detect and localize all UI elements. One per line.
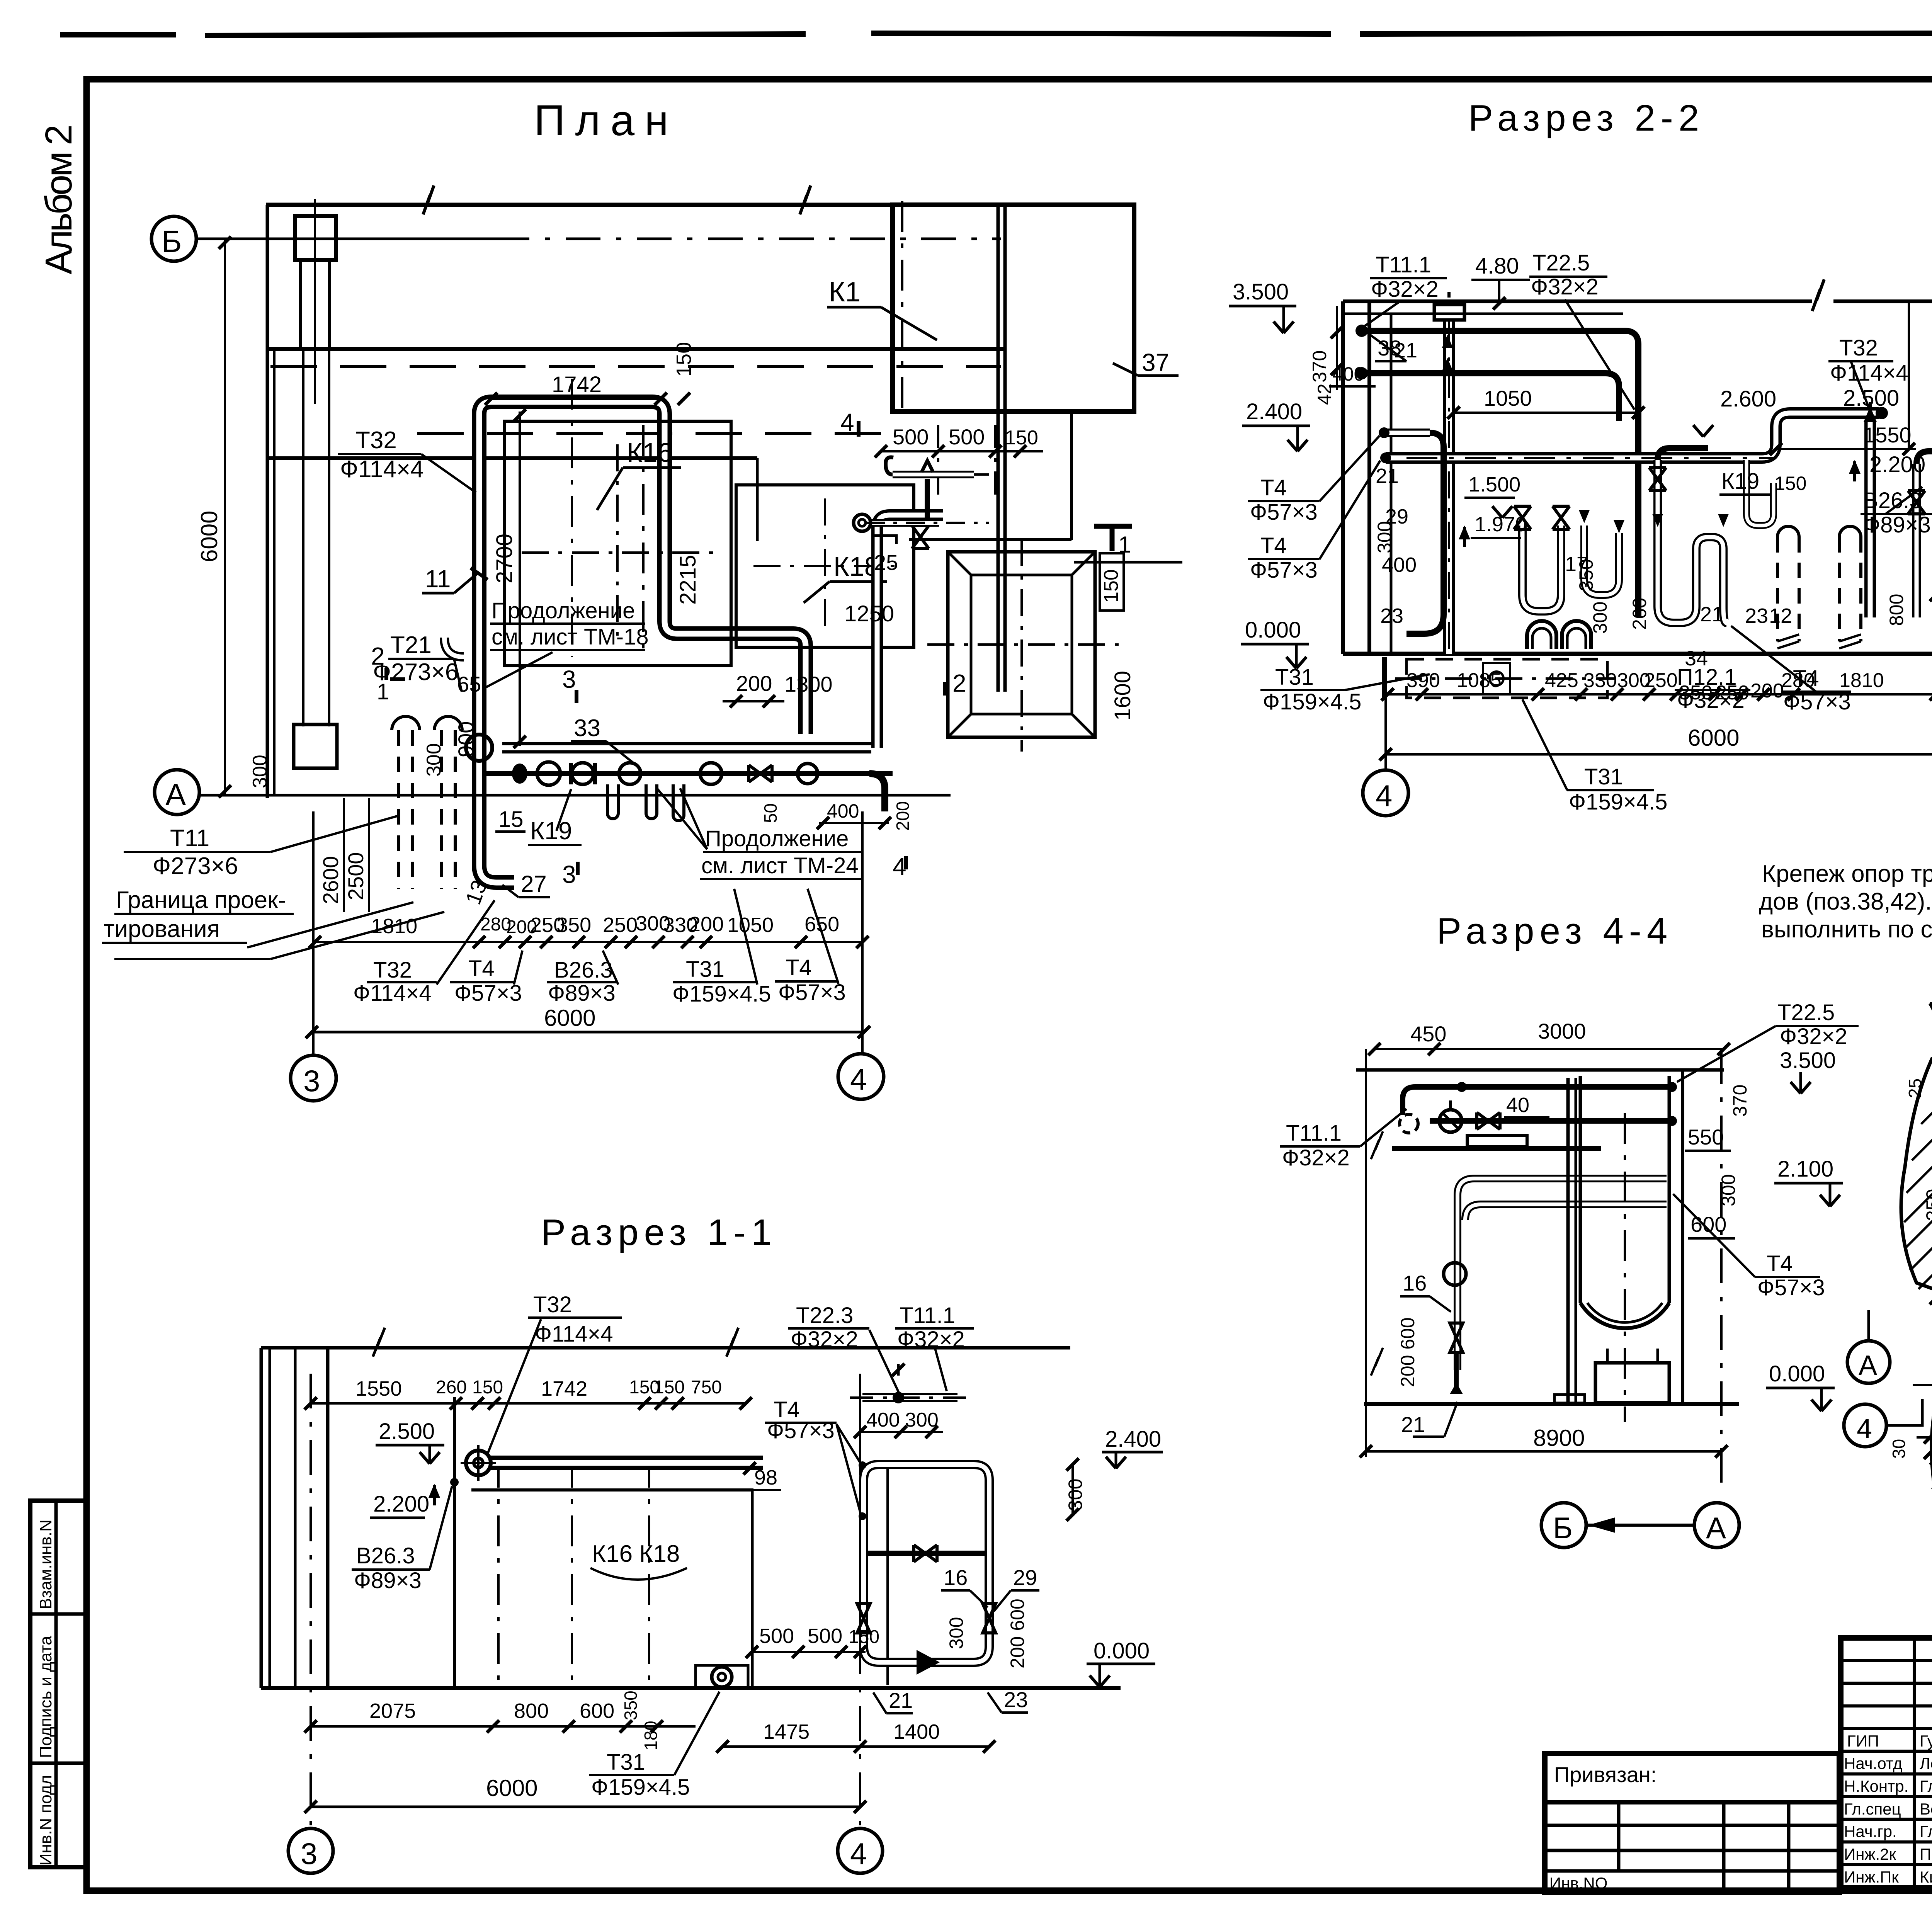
svg-text:Граница проек-: Граница проек-: [116, 887, 286, 913]
svg-text:23: 23: [1745, 604, 1768, 628]
svg-text:370: 370: [1309, 350, 1330, 383]
svg-text:21: 21: [1394, 339, 1417, 362]
left 6000 dim: [196, 236, 231, 798]
svg-text:2.100: 2.100: [1777, 1156, 1833, 1182]
dim 1300: [784, 672, 833, 696]
svg-text:Разрез 2-2: Разрез 2-2: [1468, 97, 1704, 139]
dim 1600 rotated / 150 boxed: [1100, 553, 1135, 721]
svg-text:250: 250: [1922, 1189, 1932, 1221]
pipe T32 serpentine: [479, 402, 806, 883]
top pipe B: [1363, 373, 1619, 421]
top beam: [1356, 1068, 1724, 1072]
label T21 f273x6: [373, 632, 462, 692]
T1 section mark right: [1094, 526, 1132, 558]
dim 500 500 150: [875, 425, 1043, 498]
svg-text:Т21: Т21: [390, 632, 432, 658]
svg-text:Ф114×4: Ф114×4: [535, 1321, 613, 1347]
svg-text:План: План: [534, 96, 679, 145]
svg-text:Волкова: Волкова: [1920, 1800, 1932, 1818]
floor: [261, 1686, 1121, 1690]
labels T11.1 T22.5 4.80: [1364, 250, 1634, 410]
svg-text:150: 150: [1774, 473, 1806, 494]
svg-text:800: 800: [1886, 594, 1907, 626]
bottom loop seals: [1527, 621, 1591, 649]
svg-text:250: 250: [603, 913, 638, 937]
svg-text:Ф159×4.5: Ф159×4.5: [591, 1775, 690, 1800]
svg-text:23: 23: [1380, 604, 1403, 628]
bottom labels P12.1 T4 T31: [1260, 626, 1851, 714]
svg-text:11: 11: [425, 565, 451, 593]
label 11: [422, 565, 488, 593]
svg-text:1742: 1742: [552, 372, 602, 397]
svg-text:Т22.3: Т22.3: [796, 1303, 853, 1328]
svg-text:1400: 1400: [893, 1720, 940, 1743]
svg-text:Ф159×4.5: Ф159×4.5: [1263, 689, 1361, 714]
svg-text:Т4: Т4: [1767, 1251, 1793, 1276]
svg-text:16: 16: [1403, 1271, 1427, 1295]
section mark 3 pair: [562, 665, 578, 888]
dim 1250: [806, 601, 947, 629]
dim 200 / 65 / 900 / 300: [423, 671, 784, 777]
pipe pair with left drop: [1444, 1179, 1667, 1394]
svg-text:К1: К1: [829, 277, 861, 308]
svg-text:Крепеж опор трубопрово-: Крепеж опор трубопрово-: [1762, 861, 1932, 887]
axis circles 4 and 3: [1363, 770, 1932, 816]
label K18: [804, 551, 887, 603]
svg-text:1050: 1050: [727, 913, 774, 937]
svg-text:Гладикова: Гладикова: [1920, 1822, 1932, 1840]
svg-text:Ф114×4: Ф114×4: [353, 981, 432, 1006]
svg-text:2.500: 2.500: [1843, 386, 1899, 411]
hatched column: [1901, 1045, 1932, 1300]
svg-text:Альбом 2: Альбом 2: [37, 124, 80, 274]
svg-text:350: 350: [1575, 559, 1597, 591]
svg-text:500: 500: [949, 425, 985, 449]
svg-text:К16: К16: [627, 437, 673, 468]
svg-text:1475: 1475: [763, 1720, 810, 1743]
top pipe A (T22.5): [1363, 331, 1638, 617]
svg-text:Т32: Т32: [533, 1292, 572, 1317]
svg-text:В26.3: В26.3: [356, 1543, 415, 1568]
plan dimensions top 1742: [485, 342, 696, 405]
right labels 2.400 300 0.000: [1065, 1427, 1163, 1687]
dim 450 3000: [1374, 1019, 1730, 1055]
svg-text:550: 550: [1688, 1125, 1724, 1149]
svg-text:450: 450: [1410, 1022, 1446, 1046]
svg-text:Ф32×2: Ф32×2: [897, 1327, 965, 1352]
labels right side T32 2.500 1550 2.200 B26.3: [1770, 335, 1932, 537]
pipe center dashline inside serpentine: [571, 379, 573, 657]
svg-text:425: 425: [1545, 669, 1578, 692]
svg-text:Ф57×3: Ф57×3: [1250, 500, 1318, 525]
svg-text:6000: 6000: [196, 511, 222, 562]
svg-text:дов (поз.38,42). Кронштейн: дов (поз.38,42). Кронштейн: [1759, 888, 1932, 915]
right pipe loop: [857, 1464, 996, 1675]
svg-text:150: 150: [654, 1377, 685, 1398]
svg-text:8900: 8900: [1533, 1425, 1585, 1451]
svg-text:Подпись и дата: Подпись и дата: [36, 1636, 55, 1758]
svg-text:Т31: Т31: [1275, 665, 1314, 690]
svg-text:1.500: 1.500: [1468, 473, 1520, 496]
svg-text:29: 29: [1013, 1565, 1037, 1590]
floor: [1364, 1402, 1739, 1406]
B26.3 label: [352, 1486, 452, 1593]
left wall: [261, 1348, 328, 1688]
chimney column plan: [295, 199, 336, 404]
svg-text:Ф273×6: Ф273×6: [373, 659, 458, 685]
svg-text:Т4: Т4: [1260, 533, 1287, 558]
svg-text:Т31: Т31: [686, 957, 724, 982]
building top wall: [266, 185, 1134, 214]
pivyazan table: [1545, 1753, 1839, 1893]
misc small numbers left: [1374, 339, 1417, 628]
wall segment right of hopper: [757, 412, 1182, 562]
svg-text:400: 400: [1332, 363, 1364, 385]
svg-text:2.400: 2.400: [1246, 399, 1302, 424]
svg-text:150: 150: [1100, 569, 1122, 603]
prodolzhenie TM-18: [485, 598, 649, 688]
continuation pipes cluster top right: [854, 457, 993, 575]
axis circle B: [151, 216, 196, 261]
top-left small dims 370 42 400: [1309, 306, 1376, 405]
svg-text:Ф159×4.5: Ф159×4.5: [1569, 789, 1667, 815]
bottom dim chain: [1381, 669, 1932, 704]
svg-text:260: 260: [1629, 598, 1650, 630]
svg-text:200: 200: [893, 801, 913, 831]
svg-text:350: 350: [621, 1690, 641, 1720]
svg-text:Н.Контр.: Н.Контр.: [1844, 1777, 1908, 1795]
svg-text:300: 300: [1718, 1174, 1739, 1206]
svg-text:Ф32×2: Ф32×2: [1282, 1145, 1350, 1170]
ceiling lines: [1343, 279, 1932, 314]
bottom dim chain: [304, 1690, 995, 1753]
svg-text:1085: 1085: [1457, 669, 1502, 692]
svg-text:Т32: Т32: [1839, 335, 1878, 361]
svg-text:1810: 1810: [1839, 669, 1884, 692]
svg-text:Ф32×2: Ф32×2: [1780, 1024, 1847, 1049]
axis A line: [199, 794, 951, 797]
label 15: [495, 807, 526, 832]
svg-text:4: 4: [1376, 779, 1392, 813]
svg-text:150: 150: [1005, 427, 1038, 449]
svg-text:Продолжение: Продолжение: [705, 826, 849, 851]
21 23 labels bottom: [873, 1687, 1028, 1713]
svg-text:21: 21: [889, 1688, 913, 1713]
axis circles B A with arrow: [1541, 1499, 1739, 1548]
svg-text:Гладикова: Гладикова: [1920, 1777, 1932, 1795]
svg-text:350: 350: [1679, 682, 1713, 704]
svg-text:Ф273×6: Ф273×6: [153, 853, 238, 879]
svg-text:150: 150: [849, 1627, 879, 1647]
svg-text:тирования: тирования: [104, 916, 220, 942]
U loop group 1: [1514, 506, 1624, 611]
left columns: [1343, 301, 1391, 654]
svg-text:Т4: Т4: [468, 956, 495, 981]
svg-text:2: 2: [952, 669, 966, 697]
svg-text:Т11.1: Т11.1: [900, 1303, 955, 1328]
svg-text:65: 65: [457, 672, 481, 696]
top broken scan line: [60, 32, 1932, 36]
plan axis circles 3 and 4: [291, 811, 884, 1101]
svg-text:25: 25: [1905, 1078, 1925, 1098]
6000: [304, 1775, 866, 1813]
svg-text:0.000: 0.000: [1245, 617, 1301, 643]
svg-text:Ф32×2: Ф32×2: [1531, 274, 1599, 299]
tall riser pipe: [1434, 292, 1464, 654]
right vertical dims: [1909, 303, 1932, 696]
svg-text:3: 3: [303, 1064, 320, 1098]
svg-text:390: 390: [1406, 669, 1440, 692]
svg-text:Т31: Т31: [1584, 764, 1623, 789]
svg-text:1050: 1050: [1484, 386, 1532, 410]
left dim vertical: [1366, 1043, 1383, 1457]
svg-text:4: 4: [1857, 1413, 1872, 1444]
svg-text:2.600: 2.600: [1720, 386, 1776, 412]
svg-text:Инж.Пк: Инж.Пк: [1844, 1868, 1899, 1886]
boiler: [1554, 1076, 1669, 1422]
svg-text:выполнить по сер.3.900-9 в.2: выполнить по сер.3.900-9 в.2: [1761, 916, 1932, 943]
svg-text:750: 750: [691, 1377, 722, 1398]
8900: [1360, 1425, 1728, 1458]
svg-text:Т4: Т4: [786, 955, 812, 980]
svg-text:К16 К18: К16 К18: [592, 1541, 680, 1567]
K16 boiler rect: [504, 421, 731, 666]
top horizontal line above (dim line): [1337, 306, 1932, 306]
svg-text:Ф57×3: Ф57×3: [778, 980, 846, 1005]
svg-text:250: 250: [1644, 669, 1678, 692]
U loop group 2: [1649, 448, 1729, 623]
dim line 1250: [806, 629, 951, 629]
svg-text:Т32: Т32: [355, 427, 397, 454]
right labels: [1673, 1000, 1859, 1411]
svg-text:Разрез 4-4: Разрез 4-4: [1437, 910, 1673, 952]
granica proektirovaniya: [102, 887, 444, 959]
labels K19 150: [1719, 469, 1806, 495]
svg-text:Ф89×3: Ф89×3: [354, 1568, 422, 1593]
boiler block: [454, 1397, 888, 1688]
svg-text:33: 33: [574, 715, 600, 742]
svg-text:см. лист ТМ-18: см. лист ТМ-18: [492, 624, 649, 650]
B26.3 riser with valve: [1908, 451, 1932, 617]
svg-text:4: 4: [850, 1062, 867, 1096]
svg-text:21: 21: [1376, 464, 1399, 488]
axis circles 3 4: [288, 1828, 883, 1873]
svg-text:см. лист ТМ-24: см. лист ТМ-24: [701, 853, 859, 878]
svg-text:Гл.спец: Гл.спец: [1844, 1800, 1901, 1818]
svg-text:Т22.5: Т22.5: [1532, 250, 1590, 276]
svg-text:180: 180: [641, 1721, 661, 1750]
svg-text:37: 37: [1142, 349, 1169, 376]
axes dash-dot verticals: [310, 1374, 312, 1830]
svg-text:200: 200: [1750, 680, 1784, 702]
svg-text:Ф159×4.5: Ф159×4.5: [672, 981, 771, 1007]
svg-text:Поздеева: Поздеева: [1920, 1845, 1932, 1863]
svg-text:1600: 1600: [1110, 671, 1135, 721]
svg-text:6000: 6000: [1688, 725, 1739, 751]
hatched wedge: [1930, 1354, 1932, 1498]
svg-text:3000: 3000: [1538, 1019, 1586, 1043]
svg-text:800: 800: [514, 1699, 549, 1723]
svg-text:Т32: Т32: [373, 957, 412, 983]
svg-text:Т22.5: Т22.5: [1777, 1000, 1835, 1025]
rotated 300 200 600: [946, 1599, 1028, 1668]
svg-text:150: 150: [672, 342, 696, 377]
right hopper: [927, 539, 1119, 752]
dashed future risers: [1777, 537, 1861, 641]
underfloor channel T31: [1383, 657, 1615, 699]
vertical pipe right with elbow to continuation: [877, 515, 943, 748]
section mark 2 left: [371, 642, 405, 704]
svg-text:400: 400: [1382, 553, 1417, 577]
svg-text:4: 4: [840, 408, 854, 436]
svg-text:Т11.1: Т11.1: [1286, 1121, 1342, 1146]
svg-text:Т4: Т4: [1260, 475, 1287, 500]
svg-text:4: 4: [850, 1837, 867, 1871]
svg-text:900: 900: [454, 721, 478, 757]
svg-text:400: 400: [866, 1409, 900, 1431]
left labels: [1280, 1109, 1406, 1170]
svg-text:Б: Б: [1553, 1511, 1573, 1545]
axis B line: [195, 238, 495, 240]
svg-text:260: 260: [436, 1377, 467, 1398]
svg-text:330: 330: [1583, 669, 1617, 692]
svg-text:27: 27: [521, 871, 547, 897]
flange dots on left of top pipes: [1355, 325, 1368, 337]
98 label: [743, 1462, 781, 1490]
svg-text:Ф32×2: Ф32×2: [791, 1327, 858, 1352]
svg-text:Нач.отд: Нач.отд: [1844, 1754, 1902, 1772]
svg-text:0.000: 0.000: [1769, 1361, 1825, 1386]
dim 1050: [1447, 386, 1645, 419]
svg-text:21: 21: [1700, 603, 1723, 626]
stub pipe T22.3/T11.1: [850, 1364, 974, 1403]
dim 2700 rotated: [492, 409, 526, 748]
svg-text:Ф57×3: Ф57×3: [454, 981, 522, 1006]
dims row top: [355, 1377, 722, 1400]
svg-text:2700: 2700: [492, 534, 517, 583]
svg-text:300: 300: [946, 1617, 967, 1649]
svg-text:6000: 6000: [486, 1775, 537, 1801]
lower fittings line: [485, 762, 913, 831]
twin dashed risers: [399, 730, 455, 889]
svg-text:3: 3: [562, 665, 576, 693]
svg-text:Продолжение: Продолжение: [492, 598, 635, 623]
elbow T21: [444, 638, 464, 657]
svg-text:ГИП: ГИП: [1847, 1732, 1879, 1750]
svg-text:500: 500: [808, 1624, 842, 1648]
svg-text:600: 600: [580, 1699, 614, 1723]
K19 vertical pipe: [1747, 460, 1774, 526]
right boundary: [1683, 1049, 1721, 1492]
svg-text:200: 200: [736, 671, 772, 696]
svg-text:Ф114×4: Ф114×4: [340, 456, 424, 483]
dims: [1905, 1023, 1932, 1306]
big junction dot on T32 at manifold: [466, 735, 492, 761]
svg-text:А: А: [1859, 1350, 1877, 1381]
svg-text:А: А: [1706, 1511, 1726, 1545]
floor: [1343, 652, 1932, 656]
svg-text:150: 150: [472, 1377, 503, 1398]
svg-text:500: 500: [893, 425, 929, 449]
svg-text:2.500: 2.500: [379, 1419, 435, 1444]
svg-text:98: 98: [754, 1466, 777, 1489]
section marks right: 4 top, 2 right: [840, 408, 966, 881]
left short pipe elbow at 2.400: [1379, 427, 1444, 634]
svg-text:Т31: Т31: [607, 1750, 645, 1775]
svg-text:Т11: Т11: [170, 825, 209, 852]
svg-text:Лепендин: Лепендин: [1920, 1754, 1932, 1772]
svg-text:А: А: [165, 777, 186, 812]
svg-text:Инв.N подл: Инв.N подл: [36, 1775, 55, 1866]
A and 4 pointer circles: [1844, 1310, 1922, 1447]
axis circle A: [155, 770, 199, 815]
svg-text:50: 50: [760, 803, 781, 823]
svg-text:0.000: 0.000: [1094, 1638, 1150, 1663]
K18 boiler rect: [736, 485, 914, 647]
svg-text:200 600: 200 600: [1397, 1317, 1418, 1387]
label 33: [571, 715, 634, 763]
svg-text:Гусева: Гусева: [1920, 1732, 1932, 1750]
svg-text:15: 15: [498, 807, 524, 832]
svg-text:500: 500: [759, 1624, 794, 1648]
svg-text:280: 280: [1781, 669, 1815, 692]
svg-text:Взам.инв.N: Взам.инв.N: [36, 1519, 55, 1609]
dash-dot marks: [1913, 1384, 1932, 1386]
svg-text:2.400: 2.400: [1105, 1427, 1161, 1452]
svg-text:300: 300: [1374, 521, 1395, 553]
T32 right riser: [1864, 402, 1877, 617]
svg-text:2500: 2500: [344, 852, 368, 900]
platform: [1392, 1135, 1601, 1148]
bottom pipe labels row: [353, 955, 846, 1007]
svg-text:400: 400: [827, 800, 859, 822]
dim 2215 rotated: [675, 555, 701, 605]
label T11 f273x6: [124, 815, 400, 879]
svg-text:200: 200: [689, 913, 724, 936]
manifold horizontal pipe: [502, 742, 871, 753]
svg-text:300: 300: [1589, 602, 1611, 634]
top line: [261, 1328, 1070, 1357]
T31 bottom label with flange: [589, 1665, 748, 1800]
16 29 labels: [941, 1565, 1039, 1611]
500 500 150: [759, 1624, 879, 1648]
long horizontal pipe T4: [1380, 407, 1888, 463]
2.600 elevation mid: [1693, 386, 1785, 437]
svg-text:16: 16: [944, 1565, 968, 1590]
svg-text:250: 250: [1716, 682, 1749, 704]
svg-text:3.500: 3.500: [1233, 279, 1289, 304]
svg-text:1742: 1742: [541, 1377, 587, 1400]
svg-text:2.200: 2.200: [373, 1492, 429, 1517]
svg-text:1550: 1550: [1863, 423, 1912, 447]
svg-text:2600: 2600: [318, 856, 343, 904]
labels top: [488, 1292, 974, 1520]
svg-text:Б: Б: [162, 224, 182, 259]
T31 bottom label: [1522, 699, 1667, 815]
svg-text:350: 350: [556, 913, 591, 937]
6000 bottom: [1379, 641, 1932, 771]
label K16: [597, 437, 681, 510]
svg-text:2.200: 2.200: [1869, 452, 1925, 477]
svg-text:4.80: 4.80: [1475, 253, 1519, 279]
label K19: [528, 789, 582, 845]
pipes top: [1403, 1082, 1677, 1126]
svg-text:300: 300: [1065, 1479, 1086, 1511]
label T32 f114x4: [338, 427, 476, 493]
svg-text:3.500: 3.500: [1780, 1048, 1836, 1073]
svg-text:Инв.NO: Инв.NO: [1549, 1874, 1607, 1892]
svg-text:1250: 1250: [844, 601, 894, 626]
